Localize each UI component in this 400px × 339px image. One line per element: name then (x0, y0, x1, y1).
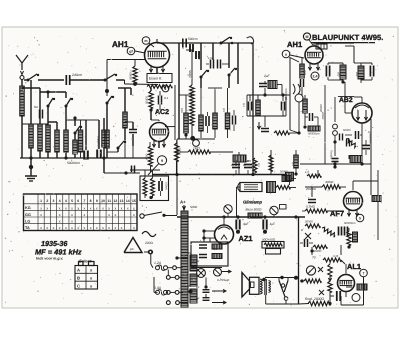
svg-text:7: 7 (363, 272, 365, 276)
capacitor mixer c (264, 116, 266, 127)
label AC2 (155, 109, 169, 116)
circled node 1 (162, 85, 169, 92)
switch S2b (117, 147, 120, 150)
resistor reg vertical (348, 228, 350, 231)
coil L8 (103, 118, 105, 130)
capacitor 4uF (237, 217, 239, 220)
pickup jack 2 (214, 268, 222, 276)
wire top bank (40, 91, 66, 93)
wire speaker top (265, 277, 299, 279)
resistor hang2 (270, 150, 272, 174)
svg-text:x: x (40, 226, 42, 230)
wire column join (124, 140, 126, 158)
box Eisen K (147, 74, 172, 83)
switch antenna (104, 74, 125, 82)
circled AL1 k (352, 294, 360, 302)
band switch table (24, 194, 138, 231)
coil mixer (257, 95, 259, 100)
fuse terminals b (166, 291, 170, 295)
capacitor mixer a (249, 95, 251, 101)
label 1935-36 (41, 239, 68, 248)
wire y84 to tube (124, 80, 126, 84)
svg-text:x: x (90, 226, 92, 230)
ground main (29, 165, 33, 169)
capacitor cathode (159, 91, 169, 110)
label AF7 (330, 209, 344, 218)
resistor mixer h (274, 131, 289, 135)
antenna (16, 55, 28, 80)
svg-text:0,3: 0,3 (291, 162, 294, 166)
wire bank to IF (103, 158, 105, 173)
wire bus y164 (300, 163, 371, 165)
speaker core lines (264, 279, 266, 295)
output transformer secondary (269, 281, 271, 283)
wire pickup drop (205, 278, 207, 289)
coil 470 box (233, 155, 246, 162)
coil L7b (80, 120, 82, 130)
wire mixer frame (247, 94, 290, 96)
X switch bass (305, 233, 311, 239)
capacitor anode AH1b (300, 79, 302, 87)
wire bank bus (20, 157, 151, 159)
svg-text:50000cm: 50000cm (284, 88, 288, 100)
svg-text:4: 4 (65, 199, 67, 203)
coil L9 (105, 130, 110, 148)
resistor 50k vertical (150, 88, 152, 91)
svg-text:Entbr.: Entbr. (193, 259, 201, 263)
label inds voor (36, 256, 64, 260)
svg-text:50000cm: 50000cm (308, 132, 320, 136)
wire mixer joins (264, 81, 266, 85)
svg-text:x: x (71, 206, 73, 210)
svg-text:50000: 50000 (343, 129, 351, 132)
wire AB2 left (345, 112, 352, 114)
wire lamp drop (237, 186, 241, 188)
svg-text:50Ω+50Ω: 50Ω+50Ω (262, 238, 276, 242)
capacitor IF2 a (325, 66, 327, 77)
coil L2 (29, 124, 34, 148)
svg-text:5: 5 (71, 199, 73, 203)
wire x290 vertical (289, 58, 291, 130)
svg-text:50000cm: 50000cm (344, 221, 356, 225)
resistor AC2 plate (176, 140, 178, 143)
speaker voice coil (260, 279, 262, 282)
coil L7 (73, 140, 78, 154)
capacitor at IF input (131, 166, 133, 174)
capacitor hang a (235, 160, 237, 166)
svg-text:470: 470 (247, 160, 252, 163)
squiggle top of x253 (247, 37, 254, 44)
svg-text:25000Ω: 25000Ω (305, 187, 317, 191)
arrow pickup (222, 271, 231, 273)
svg-text:x: x (65, 226, 67, 230)
svg-text:0,1: 0,1 (164, 96, 169, 100)
circled osc node (193, 140, 200, 147)
capacitor 1uF (264, 217, 266, 220)
svg-text:x: x (84, 226, 86, 230)
resistor 0,3M (302, 210, 305, 212)
vertical x325 (324, 85, 326, 164)
svg-text:AH1: AH1 (287, 40, 303, 49)
label AZ1 (239, 234, 253, 243)
svg-text:GG: GG (25, 213, 31, 217)
wire IF top (130, 169, 160, 171)
wire to IF2 (353, 46, 355, 63)
svg-text:1: 1 (165, 87, 167, 91)
svg-text:fee: fee (34, 105, 39, 109)
capacitor AF7 low (304, 239, 306, 247)
svg-text:2: 2 (46, 199, 48, 203)
svg-text:50000: 50000 (130, 72, 133, 80)
coil AF7 bottom (353, 232, 358, 242)
svg-text:x: x (121, 226, 123, 230)
wire al1 bottom join (299, 303, 310, 306)
capacitor x335 (332, 158, 339, 160)
IF coil A (144, 170, 146, 178)
wire top bus oscillator (157, 42, 253, 44)
svg-text:12: 12 (113, 199, 117, 203)
capacitor 500cm (183, 37, 198, 48)
dial lamp (240, 183, 262, 192)
coil x296 (294, 155, 299, 168)
transformer secondary a (190, 255, 197, 271)
svg-text:1μ: 1μ (196, 285, 200, 289)
coil L3 (38, 124, 43, 151)
svg-text:x: x (71, 220, 73, 224)
coil L10 (123, 112, 128, 128)
resistor diag AB2 (345, 138, 357, 148)
svg-text:A: A (77, 268, 80, 273)
label AH1 first (112, 40, 129, 49)
coil L5 (55, 130, 60, 152)
arrow pickup d (212, 302, 226, 304)
IF coil B (152, 170, 154, 178)
wire IF2 top a (328, 62, 343, 64)
capacitor C pad (85, 120, 87, 150)
wire bus y217 (177, 216, 305, 218)
resistor 50k grid (134, 60, 136, 67)
resistor diag AF7 (321, 226, 336, 237)
tube AH1 second (305, 43, 323, 64)
tube AZ1 (215, 217, 234, 244)
svg-text:C: C (77, 283, 80, 288)
tube AH1 first (145, 39, 170, 68)
resistor top small (307, 174, 321, 178)
svg-text:0,1: 0,1 (257, 163, 260, 167)
entbr row 1 (199, 244, 207, 246)
circled AL1 grid (360, 269, 368, 277)
capacitor osc right (232, 116, 234, 125)
svg-text:KG: KG (25, 206, 31, 210)
svg-text:6: 6 (77, 199, 79, 203)
svg-text:70: 70 (312, 256, 316, 260)
svg-text:Tonabn.: Tonabn. (330, 150, 333, 160)
switch S1a (46, 90, 49, 93)
svg-text:14: 14 (126, 199, 130, 203)
resistor on bus (248, 213, 262, 218)
wire grid bus y59 (107, 59, 146, 61)
svg-text:220Ω: 220Ω (144, 241, 153, 245)
svg-text:450: 450 (355, 72, 358, 77)
circled terminal u (282, 50, 304, 62)
node spacer (161, 163, 163, 165)
osc coil arcs (293, 84, 300, 94)
svg-text:2,4: 2,4 (313, 75, 318, 79)
svg-text:100: 100 (180, 108, 183, 113)
svg-text:TA: TA (25, 226, 30, 230)
svg-text:4V: 4V (188, 285, 191, 288)
logo circle (303, 33, 313, 45)
svg-text:x: x (84, 213, 86, 217)
X mark b (319, 290, 324, 295)
title BLAUPUNKT 4W95 (311, 33, 383, 43)
svg-text:AB2: AB2 (339, 97, 353, 104)
svg-text:x: x (59, 206, 61, 210)
wire AF7 plate (352, 181, 354, 186)
svg-text:x: x (71, 213, 73, 217)
coil IF2 a (340, 65, 346, 79)
svg-text:Glimlamp: Glimlamp (243, 200, 263, 205)
svg-text:5000Ω: 5000Ω (313, 249, 322, 253)
svg-text:x: x (59, 213, 61, 217)
tube AL1 (338, 264, 355, 292)
svg-text:50000: 50000 (145, 96, 149, 104)
wire (70, 79, 104, 81)
svg-text:1μ: 1μ (196, 296, 200, 300)
svg-text:Bezo 500Ω: Bezo 500Ω (246, 208, 262, 212)
svg-text:x: x (108, 213, 110, 217)
circled node 9 (148, 156, 167, 175)
pickup jack 1 (197, 269, 206, 278)
svg-text:x: x (53, 226, 55, 230)
svg-text:x: x (114, 226, 116, 230)
coil osc4 (227, 88, 229, 113)
svg-text:50000: 50000 (188, 70, 191, 78)
svg-text:x: x (84, 206, 86, 210)
svg-text:500: 500 (213, 248, 218, 251)
svg-text:1,5x: 1,5x (208, 57, 214, 60)
wire main vertical right (298, 217, 300, 304)
wire bus y174 (152, 174, 286, 176)
svg-text:x: x (108, 206, 110, 210)
coil bank osc (185, 95, 187, 113)
svg-text:x: x (46, 226, 48, 230)
svg-text:5: 5 (359, 217, 361, 221)
svg-text:BLAUPUNKT 4W95.: BLAUPUNKT 4W95. (312, 33, 383, 42)
svg-text:0,35: 0,35 (333, 255, 339, 258)
coil right AF7 (372, 196, 381, 202)
resistor hang (253, 158, 257, 172)
svg-text:9: 9 (161, 159, 163, 163)
svg-text:x: x (65, 206, 67, 210)
fuse terminals a (173, 266, 177, 270)
capacitor trim (129, 129, 137, 131)
svg-text:1: 1 (40, 199, 42, 203)
svg-text:x: x (133, 213, 135, 217)
svg-text:AH1: AH1 (112, 40, 129, 49)
switch osc 3 (228, 74, 231, 77)
svg-text:x: x (40, 213, 42, 217)
AC squiggle (142, 232, 156, 237)
svg-text:1MΩ: 1MΩ (193, 147, 200, 151)
svg-text:20000: 20000 (321, 111, 324, 120)
svg-text:x: x (102, 226, 104, 230)
wire speaker bottom (265, 295, 267, 304)
transformer secondary b (190, 274, 197, 286)
resistor 20000 (305, 224, 320, 228)
wire al1 frame (363, 277, 365, 305)
tube AF7 (344, 186, 363, 211)
wire osc bottom (177, 138, 215, 140)
mains switch (140, 214, 144, 218)
wire osc verticals (178, 43, 180, 139)
capacitor fee (34, 105, 43, 119)
svg-text:15: 15 (132, 199, 136, 203)
hatch box right of lamp (282, 176, 291, 182)
switch S2a (106, 102, 109, 105)
wire AH1b plate to IF2 (322, 42, 354, 44)
svg-text:8: 8 (90, 199, 92, 203)
box al1 right (357, 284, 367, 290)
svg-text:50000cm: 50000cm (67, 161, 80, 165)
resistor 2000 (308, 301, 330, 305)
small box GZ (280, 205, 287, 210)
svg-text:500Ω: 500Ω (190, 205, 198, 209)
capacitor plate pair AH1 (189, 44, 191, 52)
wire A+ column (176, 174, 178, 215)
resistor 40000 (317, 170, 319, 176)
coil box above lamp (286, 172, 294, 181)
svg-text:3: 3 (53, 199, 55, 203)
coil L4 (46, 125, 51, 152)
circled jack b (270, 206, 278, 217)
svg-text:11: 11 (107, 199, 111, 203)
svg-text:4: 4 (59, 199, 61, 203)
svg-text:x: x (40, 206, 42, 210)
capacitor osc mid (205, 116, 207, 126)
svg-text:x: x (46, 206, 48, 210)
coil L6 (64, 130, 69, 152)
coil osc3 (214, 88, 216, 113)
circled AF7 node (356, 214, 364, 222)
svg-text:100cm: 100cm (165, 182, 168, 191)
terminal top left (149, 250, 153, 254)
circled terminal m (142, 37, 154, 47)
box small below (266, 249, 281, 255)
svg-text:10: 10 (101, 199, 105, 203)
wire x253 vertical (252, 43, 254, 174)
vertical line x335 (334, 97, 336, 122)
label AL1 (347, 262, 361, 271)
capacitor double AF7 (338, 227, 340, 236)
circled 2.4 (311, 72, 319, 80)
lamp socket (267, 182, 276, 193)
tube AC2 pins (153, 140, 155, 147)
svg-text:4V: 4V (188, 252, 191, 255)
svg-text:9: 9 (96, 199, 98, 203)
tube AF7 pins (348, 209, 350, 216)
capacitor det (309, 113, 311, 121)
svg-text:MF = 491 kHz: MF = 491 kHz (35, 248, 82, 257)
capacitor pair series (210, 60, 212, 69)
wire osc drop (176, 139, 178, 162)
svg-text:500cm: 500cm (188, 37, 198, 41)
resistor osc vertical (191, 60, 193, 85)
small circle below triangle (148, 250, 152, 254)
coil L1 (21, 80, 23, 87)
svg-text:x: x (102, 206, 104, 210)
svg-text:100: 100 (303, 70, 307, 75)
label MF 491 kHz (35, 248, 82, 257)
svg-text:x: x (71, 226, 73, 230)
capacitor AF7 in (311, 187, 313, 197)
resistor al1 vertical (329, 262, 331, 264)
svg-text:0,3MΩ: 0,3MΩ (306, 205, 316, 209)
label AB2 (338, 97, 354, 105)
resistor al1 left (300, 280, 304, 282)
svg-text:x: x (108, 226, 110, 230)
resistor det box (308, 126, 320, 131)
switch antenna input (24, 79, 27, 81)
field coil (281, 284, 284, 287)
resistor 5000 (313, 245, 327, 249)
capacitor pair det2 (339, 134, 341, 141)
svg-text:Regl. 2000Ω: Regl. 2000Ω (305, 297, 324, 301)
switch osc (220, 37, 234, 45)
resistor 1M (177, 151, 188, 153)
label box 450 (316, 44, 327, 49)
IF transformer box (140, 176, 169, 201)
switch S1b (65, 105, 68, 108)
svg-text:0,1: 0,1 (242, 103, 245, 107)
svg-text:B: B (77, 275, 80, 280)
coil det (304, 95, 306, 99)
svg-text:AC2: AC2 (155, 109, 169, 116)
coil det bottom (350, 156, 362, 163)
capacitor al1 (336, 291, 338, 301)
capacitor Ton (362, 144, 370, 146)
svg-text:x: x (96, 226, 98, 230)
circled jack a (224, 205, 232, 217)
label AH1 second (287, 40, 303, 49)
svg-text:x: x (127, 206, 129, 210)
coil osc2 (200, 88, 202, 115)
svg-text:x: x (121, 206, 123, 210)
svg-text:x: x (96, 206, 98, 210)
svg-text:240cm: 240cm (71, 73, 82, 77)
capacitor mixer b (282, 95, 284, 101)
resistor lamp series (276, 186, 290, 190)
wire column 2 (124, 88, 126, 112)
capacitor hang b (244, 164, 252, 166)
svg-text:50000: 50000 (280, 171, 288, 174)
svg-text:B: B (301, 228, 303, 232)
svg-text:0,5: 0,5 (222, 108, 225, 112)
coil IF2 b (358, 66, 364, 79)
wire pickup h (191, 267, 222, 269)
svg-text:A+: A+ (180, 200, 186, 205)
svg-text:50000: 50000 (179, 147, 182, 155)
svg-text:Doppelcm: Doppelcm (97, 136, 101, 149)
resistor AC2 cathode (149, 142, 151, 146)
label Select (79, 259, 92, 264)
speaker cone (242, 273, 250, 298)
svg-text:u: u (285, 53, 287, 57)
svg-text:V: V (309, 270, 311, 274)
circled terminal gf (127, 47, 145, 55)
tube AH1 second pins (309, 63, 311, 70)
circled osc sym (295, 94, 303, 102)
